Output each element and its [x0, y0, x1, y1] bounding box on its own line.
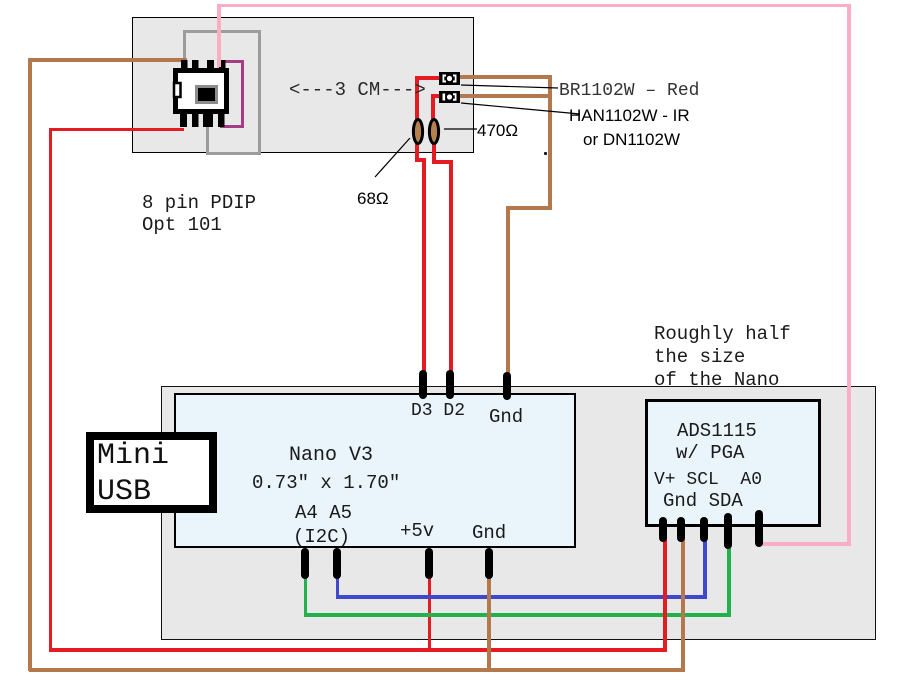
pin SDA (ADS) [724, 513, 732, 549]
pin Gnd (ADS) [677, 517, 685, 542]
label (I2C) [293, 526, 350, 548]
op-amp U1 OPT101 8 pin PDIP chip [165, 50, 240, 140]
wire purple from OPT101 pin 8 to bottom right pin [222, 60, 244, 63]
label +5v [400, 520, 434, 542]
wire green A4 to SDA [304, 560, 307, 617]
Nano V3 board [174, 393, 576, 548]
wire red LED2 to resistor 470 ohm [431, 94, 441, 98]
pin V+ (ADS) [659, 517, 667, 542]
pin D2 (Nano top) [446, 370, 454, 399]
label 68 ohm [357, 189, 389, 209]
label Gnd SDA [663, 490, 743, 512]
wire purple segment [241, 60, 244, 128]
label Gnd (Nano top) [489, 406, 523, 428]
label A4 A5 [295, 502, 352, 524]
stray dot mark [544, 152, 547, 155]
label 470 ohm [477, 121, 518, 141]
wire brown from Nano bottom Gnd pin down [487, 560, 491, 671]
wire blue I2C segment [703, 530, 707, 599]
ADS1115 board [645, 399, 821, 527]
label V+ SCL A0 [654, 470, 762, 490]
wire red segment [415, 76, 419, 121]
wire purple segment [220, 125, 244, 128]
wire pink to ADS A0 pin [761, 542, 851, 546]
wire red down to D3 [422, 158, 426, 375]
enclosure box (boards, bottom) [161, 386, 876, 640]
wire green I2C segment [727, 530, 731, 617]
wire red down to D2 [449, 160, 453, 375]
pin D3 (Nano top) [419, 370, 427, 399]
resistor R1 68 ohm [409, 116, 427, 147]
Mini USB connector [86, 432, 217, 513]
wire brown from LED2 [458, 94, 552, 98]
wire brown from OPT101 top-left pin going left [28, 58, 187, 62]
wire pink top horizontal [217, 4, 851, 7]
wire gray loop segment [258, 30, 261, 155]
pin Gnd (Nano bottom) [485, 548, 493, 579]
wire red from +5v pin down [428, 560, 431, 652]
pin A4 (Nano bottom) [301, 548, 309, 579]
wire gray loop segment [206, 152, 261, 155]
wire gray loop from OPT101 pin top-left to bottom pin [183, 31, 186, 62]
label 0.73 x 1.70 [252, 472, 400, 494]
wire red segment [431, 94, 435, 121]
label 8 pin PDIP / Opt 101 [142, 192, 256, 236]
pin A5 (Nano bottom) [333, 548, 341, 579]
wire brown segment [506, 206, 552, 210]
label Mini USB [97, 438, 169, 510]
wire red from OPT101 bottom-left pin going left [49, 128, 184, 131]
label Nano V3 [289, 444, 373, 467]
wire pink down to OPT101 pin [217, 4, 221, 68]
pin +5v (Nano bottom) [425, 548, 433, 579]
callout line to HAN1102W label [455, 98, 585, 118]
wire brown segment [548, 75, 552, 210]
wire red segment [415, 142, 419, 162]
wire red vertical up to ADS V+ pin [663, 530, 667, 652]
label Gnd (Nano bottom) [472, 522, 506, 544]
pin Gnd (Nano top) [503, 372, 511, 400]
pin A0 (ADS) [755, 510, 763, 547]
wire pink right vertical [847, 4, 851, 546]
wire brown bottom horizontal [29, 668, 685, 672]
callout line to BR1102W label [455, 80, 565, 92]
wire brown far-left vertical [28, 58, 32, 671]
wire brown from LED1 [458, 75, 552, 79]
label HAN1102W - IR [569, 106, 690, 126]
wire brown vertical up to ADS Gnd pin [681, 530, 685, 672]
wire gray loop segment [206, 126, 209, 155]
wire red far-left vertical [49, 128, 52, 652]
wire red segment [432, 142, 436, 164]
wire blue I2C segment [336, 595, 707, 599]
label or DN1102W [583, 130, 680, 150]
label w/ PGA [676, 442, 744, 464]
wire red bottom horizontal to ADS V+ [49, 648, 667, 652]
LED D2 HAN1102W package [439, 91, 460, 103]
label Roughly half the size of the Nano [654, 323, 791, 392]
pin SCL (ADS) [700, 517, 708, 542]
callout line to 470 ohm label [440, 124, 482, 134]
wire brown down to Nano top Gnd pin [506, 206, 510, 378]
enclosure box (sensor, top) [132, 17, 474, 153]
wire gray loop segment [183, 30, 261, 33]
label 3 CM arrow [289, 79, 426, 101]
wire red segment [415, 158, 426, 162]
resistor R2 470 ohm [425, 116, 443, 147]
wire blue A5 to SCL [336, 560, 339, 599]
LED D1 BR1102W package [439, 72, 460, 85]
label D3 D2 [411, 401, 465, 421]
wire pink overlay onto OPT101 pin [217, 56, 221, 67]
label ADS1115 [677, 420, 757, 442]
label BR1102W - Red [559, 81, 699, 101]
callout line to 68 ohm label [370, 133, 415, 183]
wire green I2C segment [304, 613, 731, 617]
wire red segment [432, 160, 453, 164]
wire red LED1 to resistor 68 ohm [416, 76, 441, 80]
